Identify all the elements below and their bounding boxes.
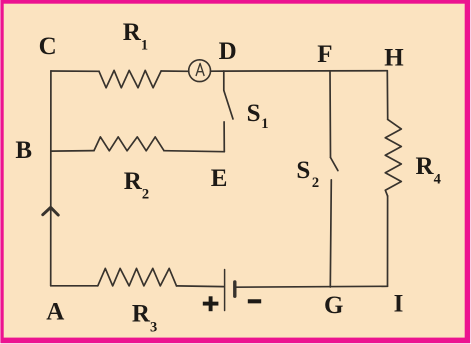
battery BT1 negative plate [233, 282, 236, 296]
wire R4 to corner I [387, 196, 389, 286]
wire ammeter to node D [211, 70, 224, 72]
wire R1 to ammeter [161, 70, 189, 72]
svg-text:A: A [46, 298, 64, 325]
wire right vertical H to R4 [386, 71, 388, 120]
resistor R1 [99, 70, 161, 87]
svg-text:D: D [219, 38, 237, 65]
switch S1 [223, 71, 225, 90]
switch S2 blade [331, 158, 338, 171]
wire top C to R1 [51, 70, 99, 72]
battery BT1 positive plate [224, 270, 226, 311]
battery plus sign [203, 296, 219, 311]
wire S2 to node G [330, 180, 331, 287]
ammeter U1 [189, 60, 211, 82]
wire left vertical C-B-A [50, 71, 52, 286]
wire bottom A to R3 [51, 285, 98, 287]
svg-text:H: H [384, 45, 404, 72]
ammeter letter A [196, 63, 204, 76]
resistor R2 [94, 137, 164, 151]
wire top D to H [224, 70, 387, 72]
svg-text:C: C [39, 33, 57, 60]
current arrow on wire A-B [43, 207, 58, 215]
wire R2 to E corner [164, 151, 224, 152]
resistor R4 [385, 119, 401, 196]
svg-text:F: F [317, 41, 332, 68]
battery minus sign [248, 299, 261, 303]
switch S2 upper wire F [329, 71, 332, 157]
wire battery to node G to corner I [235, 285, 388, 288]
svg-text:I: I [394, 291, 404, 318]
wire B to R2 [51, 150, 94, 153]
svg-text:B: B [15, 137, 32, 164]
resistor R3 [98, 268, 177, 286]
svg-text:G: G [324, 292, 343, 319]
svg-text:E: E [211, 165, 228, 192]
wire R3 to battery [177, 285, 224, 288]
wire S1 to node E [223, 122, 225, 152]
